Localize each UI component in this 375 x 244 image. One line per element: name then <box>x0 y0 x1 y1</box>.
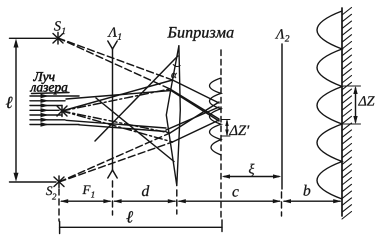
label l (bottom) <box>126 211 133 222</box>
angle alpha arc <box>173 65 180 67</box>
fringe intensity wave dZ' <box>210 78 222 155</box>
ray from S1 lower (dashed virtual) <box>58 38 170 89</box>
screen intensity wave dZ <box>317 11 342 199</box>
refracted ray lower 3 <box>170 102 219 133</box>
ray F lower mid (dash-dot) <box>62 111 173 142</box>
extension dashed below L2 <box>281 192 283 216</box>
extension dashed below biprism <box>176 190 178 214</box>
laser beam arrow 6 <box>30 118 65 122</box>
refracted ray upper 2 <box>173 80 220 103</box>
refracted envelope upper <box>171 91 219 122</box>
label alpha <box>171 73 177 78</box>
label L1 <box>107 27 121 39</box>
aperture ray S2 to apex (solid) <box>95 56 178 141</box>
label underline <box>32 93 70 94</box>
laser beam arrow 3 <box>30 103 62 107</box>
ray from S2 lower (dashed virtual) <box>59 142 173 182</box>
extension dashed below S2 <box>58 189 60 221</box>
laser beam arrow 7 <box>30 122 79 126</box>
label dZ' <box>229 125 249 135</box>
label c <box>232 189 238 196</box>
laser beam arrow 2 <box>30 99 65 103</box>
dZ' dimension arrow <box>225 120 229 137</box>
screen line <box>341 8 343 216</box>
envelope ray upper (solid) <box>66 91 171 100</box>
laser beam arrow 1 <box>30 94 79 98</box>
refracted ray lower 2 <box>173 120 220 142</box>
label xi <box>249 164 255 176</box>
laser beam arrow 4 <box>30 108 59 112</box>
dimension xi <box>222 174 281 178</box>
label b <box>304 185 311 196</box>
dZ tick bottom <box>344 123 361 125</box>
dZ' tick top <box>221 119 230 121</box>
label dZ <box>358 96 375 105</box>
ray F upper mid (solid) <box>62 80 173 111</box>
dZ dimension arrow <box>353 86 357 124</box>
ray F lower shallow (dash-dot) <box>62 111 170 133</box>
label F1 <box>82 185 94 197</box>
dimension l vertical arrow line <box>14 39 19 182</box>
aperture ray S1 to bottom apex (solid) <box>96 98 174 162</box>
dZ tick top <box>344 85 361 87</box>
label S1 <box>54 21 65 34</box>
ray F upper shallow (dash-dot) <box>62 89 170 111</box>
label L2 <box>275 29 289 41</box>
dimension F1 <box>60 199 112 203</box>
dimension c <box>177 199 281 203</box>
fringe plane dashed line <box>220 50 222 220</box>
ray from S1 upper (dashed virtual) <box>58 38 173 80</box>
label Biprizma <box>167 27 233 41</box>
label S2 <box>46 186 56 199</box>
extension dashed below L1 <box>112 181 114 215</box>
biprism body <box>166 46 180 186</box>
dimension d <box>113 199 176 203</box>
node F laser focus (asterisk) <box>57 106 67 117</box>
ray from S2 upper (dashed virtual) <box>59 133 170 182</box>
label laser beam line2 <box>30 85 68 94</box>
dZ' tick bottom <box>221 135 230 137</box>
refracted envelope lower <box>166 107 219 130</box>
node S1 (asterisk source point) <box>53 33 63 45</box>
dimension b <box>283 199 342 203</box>
label d <box>142 185 149 196</box>
laser beam arrow 5 <box>30 113 62 117</box>
lens L1 <box>108 41 117 178</box>
dimension l bottom line <box>60 220 222 234</box>
label l (left) <box>6 97 13 108</box>
node S2 (asterisk source point) <box>54 176 64 188</box>
screen hatching <box>342 8 352 220</box>
extension line top from S1 <box>10 37 57 39</box>
envelope ray lower 1 (solid) <box>66 120 166 128</box>
extension line bottom from S2 <box>10 181 57 183</box>
lens L2 <box>281 44 283 189</box>
envelope ray lower 2 (solid) <box>79 125 166 132</box>
label laser beam line1 <box>33 72 54 84</box>
refracted ray upper 3 <box>170 89 219 119</box>
